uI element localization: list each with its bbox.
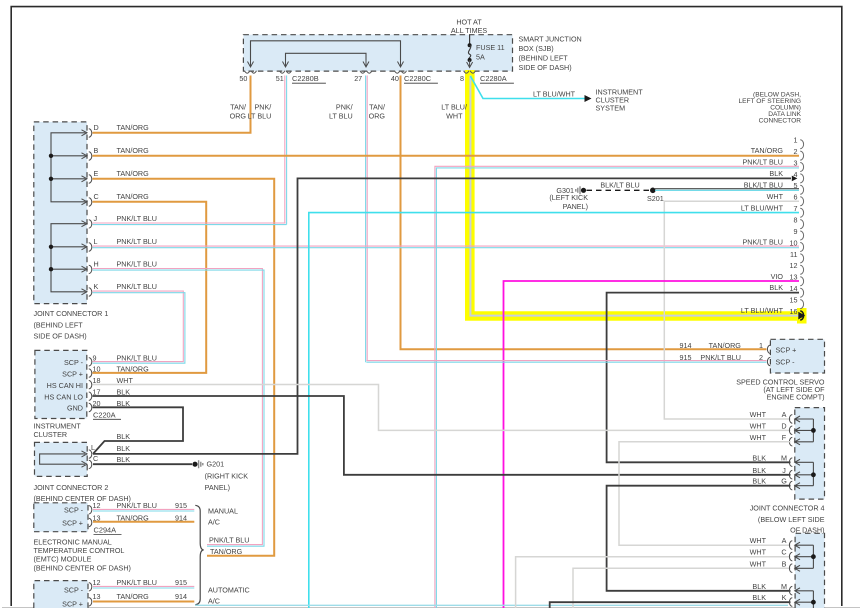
svg-text:914: 914 [680,341,692,350]
svg-text:G201: G201 [207,460,225,469]
instrument cluster box [35,350,87,418]
EMTC automatic SCP- arc [89,583,92,591]
servo SCP+ arc [767,345,770,353]
svg-text:PNK/LT BLU: PNK/LT BLU [743,158,783,167]
svg-text:8: 8 [794,216,798,225]
wire BLK JC4 pin G down at x607 to lower connector pin M [607,486,791,591]
svg-text:SCP -: SCP - [776,358,796,367]
svg-text:BLK/LT BLU: BLK/LT BLU [744,180,783,189]
svg-text:C2280A: C2280A [480,74,507,83]
wire BLK/LT BLU S201 to DLC pin 5 [655,188,799,190]
wire BLK JC2 pin C to ground G201 [93,463,192,465]
SJB internal arrow to pin 40 [398,60,404,67]
svg-text:ALL TIMES: ALL TIMES [451,26,488,35]
svg-text:TAN/ORG: TAN/ORG [117,365,150,374]
svg-text:CONNECTOR: CONNECTOR [759,118,802,125]
svg-text:PANEL): PANEL) [563,202,588,211]
svg-text:10: 10 [790,238,798,247]
svg-text:C2280C: C2280C [404,74,432,83]
JC1 pin C arrow and arc [82,199,88,205]
svg-text:B: B [94,146,99,155]
wire PNK/LT BLU from SJB pin 27 down to speed control servo SCP- [365,76,367,363]
svg-text:15: 15 [790,296,798,305]
EMTC manual SCP- arc [89,506,92,514]
svg-text:BLK: BLK [752,593,766,602]
svg-text:C2280B: C2280B [292,74,319,83]
wire WHT instrument cluster HS CAN HI to JC4 pin D [93,385,791,431]
svg-text:B: B [782,559,787,568]
JC1 internal bus J-L-H-K [51,224,86,292]
svg-text:A/C: A/C [208,597,220,606]
JC1 bus junction dot at L [49,245,53,249]
pin 27 connector arcs [360,71,372,73]
svg-text:10: 10 [93,365,101,374]
speed control servo box [770,339,824,373]
wire TAN/ORG JC1 pin B to DLC pin 2 [93,155,800,157]
wire TAN/ORG JC1 pin E down at x274 to A/C TAN/ORG pair [93,179,275,556]
instrument cluster pin GND arc [89,403,92,411]
svg-text:J: J [782,466,786,475]
svg-text:SMART JUNCTION: SMART JUNCTION [519,35,582,44]
wire TAN/ORG EMTC manual SCP+ to brace [93,521,194,523]
svg-text:TAN/ORG: TAN/ORG [210,547,243,556]
svg-text:TAN/ORG: TAN/ORG [117,146,150,155]
svg-text:8: 8 [460,74,464,83]
svg-text:1: 1 [794,136,798,145]
svg-text:PNK/LT BLU: PNK/LT BLU [743,238,783,247]
pin 51 connector arcs [280,71,292,73]
svg-text:GND: GND [67,404,83,413]
svg-text:E: E [94,169,99,178]
svg-text:M: M [781,582,787,591]
lower connector pin K arc and arrow [789,598,792,607]
svg-text:16: 16 [790,307,798,316]
svg-text:TAN/ORG: TAN/ORG [117,592,150,601]
JC1 bus junction dot at H [49,267,53,271]
JC1 pin B arrow and arc [82,153,88,159]
dashed BLK/LT BLU wire G301 to S201 [587,189,651,191]
svg-text:SCP +: SCP + [62,519,83,528]
svg-text:BOX (SJB): BOX (SJB) [519,44,554,53]
JC1 pin D arrow and arc [82,130,88,136]
instrument cluster pin SCP+ arc [89,369,92,377]
wire BLK instrument cluster HS CAN LO to JC4 pin J [93,396,791,475]
lower connector pin M arc and arrow [789,586,792,595]
svg-text:A: A [782,536,787,545]
svg-text:SCP +: SCP + [62,600,83,608]
SJB internal arrow to pin 27 [363,60,369,67]
svg-text:LT BLU/WHT: LT BLU/WHT [741,203,784,212]
svg-text:CLUSTER: CLUSTER [34,430,68,439]
wire TAN/ORG JC1 pin C down at x206 to instrument cluster SCP+ [93,202,207,373]
splice S201 [650,188,656,194]
svg-text:F: F [782,433,787,442]
svg-text:S201: S201 [647,194,664,203]
svg-text:TAN/ORG: TAN/ORG [117,192,150,201]
svg-text:14: 14 [790,284,798,293]
SJB internal arrow to pin 51 [283,60,289,67]
svg-text:PNK/LT BLU: PNK/LT BLU [117,353,157,362]
svg-text:HS CAN LO: HS CAN LO [44,392,83,401]
svg-text:(BEHIND LEFT: (BEHIND LEFT [34,320,84,329]
wire WHT DLC pin 6 down at x664 to JC4 pin A [664,201,799,419]
wire TAN/ORG EMTC automatic SCP+ to brace [93,601,194,603]
svg-text:C220A: C220A [93,410,116,419]
lower connector pin B arc and arrow [789,564,792,573]
wire BLK DLC pin 4 down at x297.5 to JC2 pin L [93,178,791,454]
EMTC manual SCP+ arc [89,518,92,526]
svg-text:PNK/: PNK/ [336,103,353,112]
SJB dashed border [243,35,512,71]
svg-text:K: K [782,593,787,602]
JC4 pin J arc and arrow [789,470,792,479]
svg-text:WHT: WHT [750,433,767,442]
wire PNK/LT BLU EMTC manual SCP- to brace [93,508,194,510]
svg-text:9: 9 [794,227,798,236]
svg-text:TAN/ORG: TAN/ORG [117,514,150,523]
svg-text:PNK/LT BLU: PNK/LT BLU [117,214,157,223]
JC1 pin K arrow and arc [82,289,88,295]
svg-text:SCP -: SCP - [64,586,84,595]
JC4 WHT bus bar [812,419,814,442]
svg-text:D: D [781,421,786,430]
svg-text:PNK/LT BLU: PNK/LT BLU [117,237,157,246]
svg-text:50: 50 [239,74,247,83]
svg-text:914: 914 [175,514,187,523]
instrument cluster pin SCP- arc [89,358,92,366]
svg-text:6: 6 [794,193,798,202]
svg-text:BLK: BLK [769,283,783,292]
JC4 pin D arc and arrow [789,426,792,435]
lower connector pin A arc and arrow [789,541,792,550]
wire TAN/ORG from SJB pin 40 down then right to servo SCP+ [401,76,767,350]
lower connector BLK bus bar (cut) [812,591,814,608]
svg-text:D: D [94,123,99,132]
svg-text:LT BLU/WHT: LT BLU/WHT [533,90,576,99]
wire BLK from bottom up at x549.7 to lower connector pin K [550,602,791,608]
wire PNK/LT BLU JC1 pin H down at x263 to A/C PNK/LT BLU pair [93,269,263,545]
svg-text:TAN/ORG: TAN/ORG [117,123,150,132]
svg-text:BLK: BLK [117,455,131,464]
pin 8 connector arcs [464,71,476,73]
JC1 pin J arrow and arc [82,221,88,227]
svg-text:ORG: ORG [230,112,247,121]
svg-text:914: 914 [175,592,187,601]
svg-text:JOINT CONNECTOR 2: JOINT CONNECTOR 2 [34,483,109,492]
lower connector bus dot at C [811,554,816,559]
JC4 pin G arc and arrow [789,481,792,490]
lower connector WHT bus bar [812,545,814,568]
svg-text:9: 9 [93,353,97,362]
svg-text:ORG: ORG [369,112,386,121]
svg-text:WHT: WHT [750,559,767,568]
JC4 pin A arc and arrow [789,415,792,424]
svg-text:13: 13 [93,592,101,601]
ground G201 symbol [192,462,197,467]
svg-text:(LEFT KICK: (LEFT KICK [549,193,588,202]
svg-text:PNK/LT BLU: PNK/LT BLU [117,501,157,510]
svg-text:SIDE OF DASH): SIDE OF DASH) [519,63,572,72]
JC1 pin E arrow and arc [82,176,88,182]
svg-text:BLK/LT BLU: BLK/LT BLU [600,180,639,189]
wire PNK/LT BLU JC1 pin J to SJB pin 51 [93,222,286,224]
svg-text:PNK/LT BLU: PNK/LT BLU [209,536,249,545]
svg-text:J: J [94,214,98,223]
EMTC manual A/C module box [34,503,88,532]
smart junction box (SJB) fill [243,35,512,71]
svg-text:TAN/ORG: TAN/ORG [117,169,150,178]
svg-text:LT BLU: LT BLU [248,112,272,121]
joint connector 2 box [35,442,88,476]
svg-text:(BELOW LEFT SIDE: (BELOW LEFT SIDE [758,515,825,524]
variant brace [195,505,203,604]
svg-text:WHT: WHT [750,410,767,419]
svg-text:915: 915 [680,353,692,362]
servo SCP- arc [767,357,770,365]
svg-text:G: G [781,477,787,486]
svg-text:A/C: A/C [208,518,220,527]
svg-text:2: 2 [794,147,798,156]
svg-text:SCP -: SCP - [64,506,84,515]
svg-text:(BEHIND LEFT: (BEHIND LEFT [519,54,569,63]
fuse 11 feed line from box top [469,35,471,44]
wire BLK instrument cluster GND to JC2 pin L [93,407,184,454]
yellow highlight trace over LT BLU/WHT circuit [470,70,805,316]
EMTC automatic SCP+ arc [89,598,92,606]
wire LT BLU/WHT from SJB pin 8 down then right to DLC pin 16 (highlighted) [470,76,799,316]
pin 50 connector arcs [245,71,257,73]
svg-text:915: 915 [175,578,187,587]
svg-text:WHT: WHT [750,536,767,545]
svg-text:PNK/LT BLU: PNK/LT BLU [117,260,157,269]
wire LT BLU/WHT DLC pin 7 down at x309 to bottom [309,213,799,608]
SJB internal arrow to pin 50 [248,60,254,67]
svg-text:WHT: WHT [446,112,463,121]
lower joint connector box (cut at bottom) [795,533,824,608]
JC1 pin H arrow and arc [82,266,88,272]
svg-text:JOINT CONNECTOR 1: JOINT CONNECTOR 1 [34,309,109,318]
instrument cluster pin HS CAN LO arc [89,392,92,400]
svg-text:40: 40 [391,74,399,83]
wire PNK/LT BLU JC1 pin K down at x184 to instrument cluster SCP- [93,291,184,362]
wire WHT from bottom up at x573 to lower connector pin B [573,568,791,608]
JC4 bus dot at J [811,472,816,477]
svg-text:C: C [781,548,786,557]
svg-text:LT BLU/: LT BLU/ [441,103,467,112]
svg-text:TAN/: TAN/ [230,103,246,112]
wire VIO DLC pin 13 down at x503.5 to bottom [504,281,800,608]
svg-text:SYSTEM: SYSTEM [596,104,626,113]
svg-text:L: L [91,443,95,452]
svg-text:7: 7 [794,204,798,213]
page bottom edge line [2,607,860,608]
wire PNK/LT BLU JC1 pin L to DLC pin 10 [93,245,800,247]
svg-text:(RIGHT KICK: (RIGHT KICK [205,471,249,480]
svg-text:12: 12 [790,261,798,270]
svg-text:H: H [94,260,99,269]
svg-text:L: L [94,237,98,246]
wire LT BLU/WHT branch from pin 8 to instrument cluster system [470,76,585,99]
svg-text:PNK/LT BLU: PNK/LT BLU [117,282,157,291]
svg-text:ENGINE COMPT): ENGINE COMPT) [767,392,825,401]
wire PNK/LT BLU DLC pin 3 down at x435 to bottom [435,166,799,608]
SJB internal bus wire: pin 50 to pin 40 loop [251,41,401,60]
svg-text:C: C [94,192,99,201]
wire TAN/ORG JC1 pin D to SJB pin 50 [93,132,252,134]
lower connector pin C arc and arrow [789,552,792,561]
svg-text:PNK/LT BLU: PNK/LT BLU [700,353,740,362]
svg-text:11: 11 [790,250,797,259]
svg-text:WHT: WHT [750,421,767,430]
svg-text:BLK: BLK [752,466,766,475]
svg-text:5A: 5A [476,53,485,62]
fuse 11 element [468,43,472,47]
SJB internal arrow to pin 8 [467,60,473,68]
svg-text:TAN/: TAN/ [369,103,385,112]
svg-text:PNK/LT BLU: PNK/LT BLU [117,578,157,587]
EMTC automatic A/C module box (cut at bottom) [34,581,88,608]
wire WHT JC4 pin F down at x619 to lower connector pin A [619,442,791,545]
JC1 bus junction dot at E [49,177,53,181]
svg-text:JOINT CONNECTOR 4: JOINT CONNECTOR 4 [750,504,825,513]
wire PNK/LT BLU EMTC automatic SCP- to brace [93,585,194,587]
svg-text:BLK: BLK [752,477,766,486]
svg-text:2: 2 [759,353,763,362]
svg-text:TAN/ORG: TAN/ORG [751,146,784,155]
svg-text:PNK/: PNK/ [255,103,272,112]
svg-text:AUTOMATIC: AUTOMATIC [208,586,250,595]
svg-text:M: M [781,453,787,462]
svg-text:VIO: VIO [771,272,784,281]
ground G301 symbol [581,188,586,193]
svg-text:K: K [94,282,99,291]
JC2 internal bus L-C [40,454,85,464]
wire PNK/LT BLU from SJB pin 51 down to JC1 pin J [284,76,286,224]
svg-text:WHT: WHT [750,548,767,557]
JC4 pin M arc and arrow [789,458,792,467]
joint connector 1 box [34,122,87,304]
svg-text:1: 1 [759,341,763,350]
svg-text:BLK: BLK [769,169,783,178]
lower connector bus dot at K [811,600,816,605]
wire WHT from bottom up at x515.6 to lower connector pin C [516,557,791,608]
SJB internal bus wire: pin 51 to pin 27 loop [286,53,367,60]
JC1 bus junction dot at B [49,154,53,158]
arrow to instrument cluster system [585,95,592,102]
svg-text:12: 12 [93,578,101,587]
svg-text:27: 27 [354,74,362,83]
svg-text:SCP -: SCP - [64,358,84,367]
svg-text:BLK: BLK [117,432,131,441]
wire BLK DLC pin 14 down at x606.6 to JC4 pin M [607,293,799,463]
svg-text:915: 915 [175,501,187,510]
svg-text:FUSE 11: FUSE 11 [476,43,505,52]
svg-text:BLK: BLK [752,582,766,591]
svg-text:SIDE OF DASH): SIDE OF DASH) [34,332,87,341]
JC4 BLK bus bar [812,462,814,485]
JC1 pin L arrow and arc [82,244,88,250]
JC4 bus dot at D [811,428,816,433]
wire LT BLU bottom horizontal (cut off) [195,604,788,606]
svg-text:C: C [93,454,98,463]
DLC pin 4 black arrowhead [792,176,798,182]
svg-text:PANEL): PANEL) [205,483,230,492]
svg-text:WHT: WHT [767,192,784,201]
instrument cluster pin HS CAN HI arc [89,381,92,389]
JC1 internal bus D-B-E-C [51,133,86,202]
svg-text:SCP +: SCP + [776,345,797,354]
svg-text:A: A [782,410,787,419]
svg-text:12: 12 [93,501,101,510]
JC2 pin C arrow and arc [82,461,88,467]
JC4 pin F arc and arrow [789,437,792,446]
JC2 pin L arrow and arc [82,451,88,457]
svg-text:BLK: BLK [752,453,766,462]
DLC pin 16 black wire arrowhead [798,312,805,320]
svg-text:(BEHIND CENTER OF DASH): (BEHIND CENTER OF DASH) [34,563,131,572]
pin 40 connector arcs [395,71,407,73]
svg-text:LT BLU: LT BLU [329,112,353,121]
svg-text:51: 51 [276,74,284,83]
wire PNK/LT BLU servo SCP- left to SJB pin 27 vertical [366,360,766,362]
svg-text:TAN/ORG: TAN/ORG [709,341,742,350]
svg-text:BLK: BLK [117,444,131,453]
wire TAN/ORG from SJB pin 50 down to JC1 pin D [250,76,252,133]
svg-text:C294A: C294A [94,526,117,535]
svg-text:LT BLU/WHT: LT BLU/WHT [741,306,784,315]
svg-text:MANUAL: MANUAL [208,507,238,516]
svg-text:HS CAN HI: HS CAN HI [47,381,83,390]
joint connector 4 box [795,408,825,500]
svg-text:SCP +: SCP + [62,369,83,378]
svg-text:OF DASH): OF DASH) [790,526,824,535]
